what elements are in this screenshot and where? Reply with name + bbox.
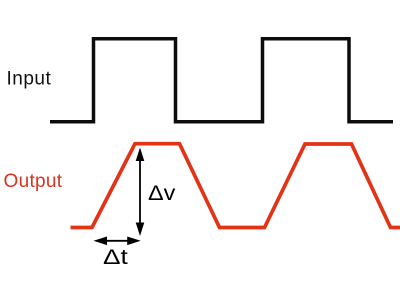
arrow: delta-v vertical double arrow (136, 148, 145, 237)
svg-text:Output: Output (4, 171, 63, 192)
wire: output trapezoidal waveform (71, 144, 400, 228)
svg-text:Δv: Δv (148, 182, 176, 205)
arrow: delta-t horizontal double arrow (94, 237, 141, 246)
wire: input square waveform (50, 39, 393, 122)
svg-text:Δt: Δt (103, 246, 128, 269)
svg-text:Input: Input (7, 68, 52, 89)
